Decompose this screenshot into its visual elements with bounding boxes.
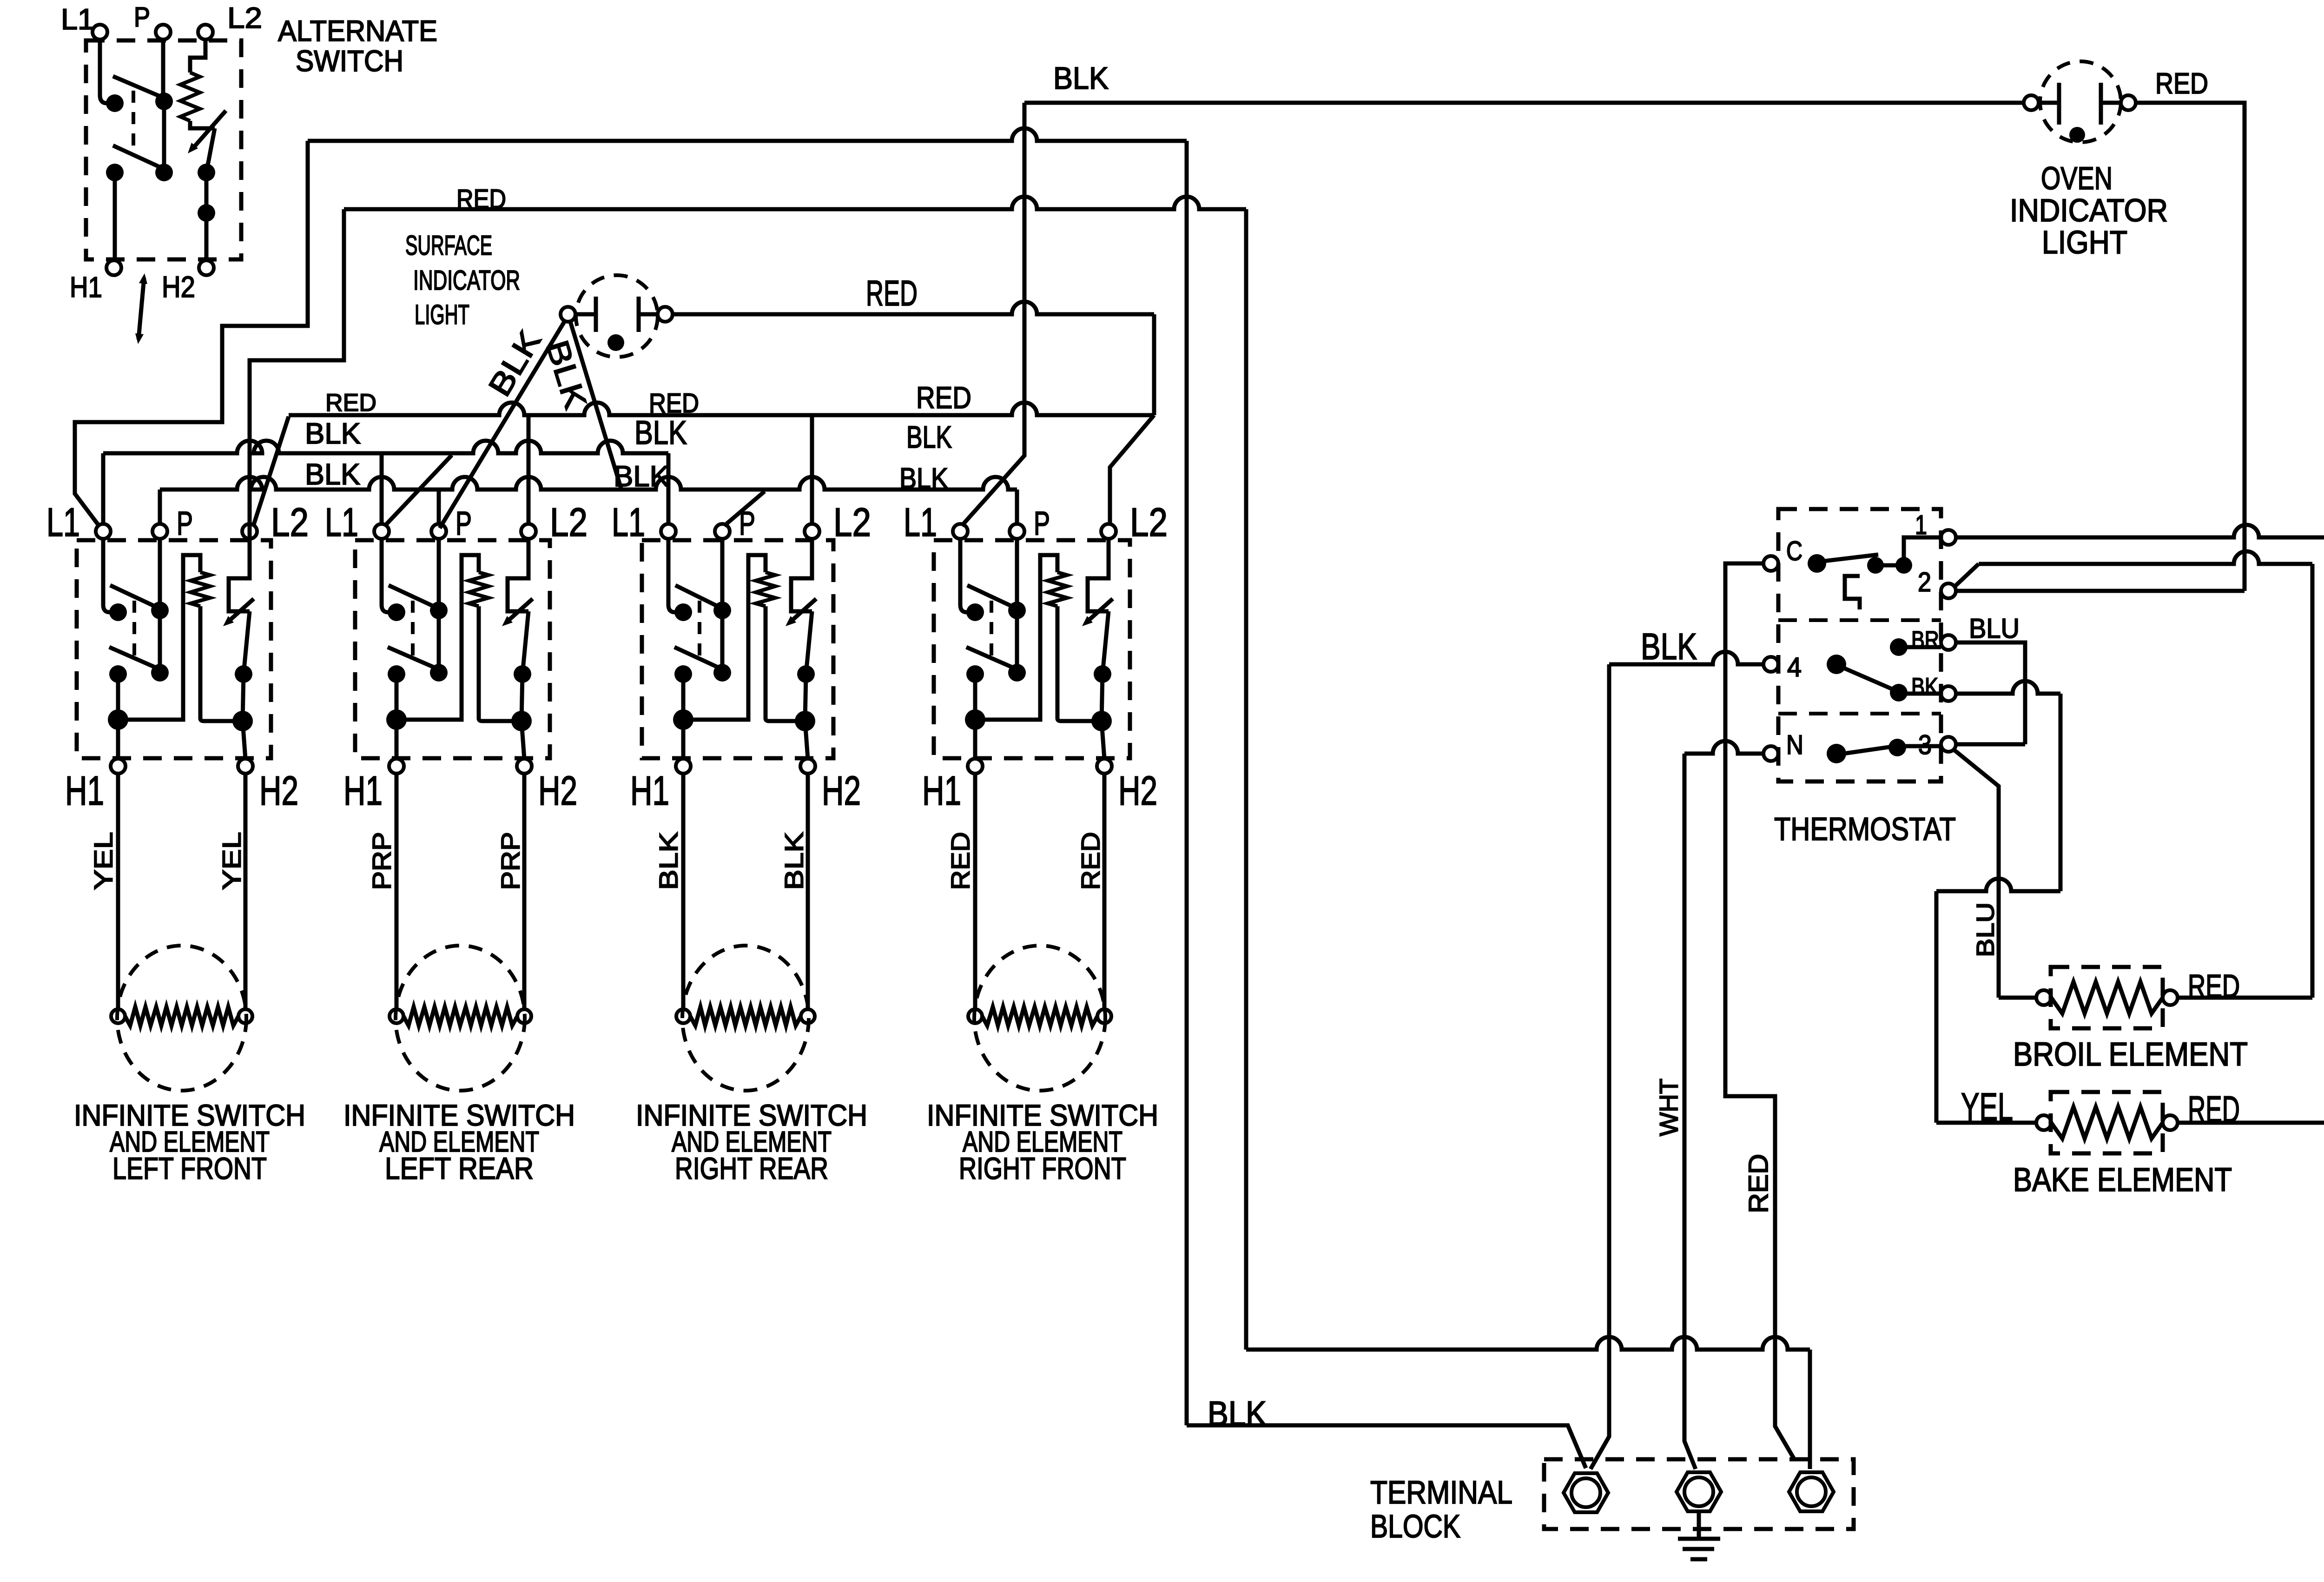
- bake element terminal left: [2036, 1115, 2051, 1130]
- switch left front blade 2: [109, 647, 162, 670]
- ground symbol: [1678, 1512, 1720, 1559]
- switch left rear terminal H1: [389, 759, 404, 774]
- alternate switch mechanical link: [132, 91, 135, 156]
- surface indicator light terminal right: [658, 307, 673, 322]
- wire BLK drop switch4: [962, 103, 1024, 526]
- switch left rear bimetal resistor: [469, 572, 489, 606]
- alternate switch terminal H1: [106, 260, 121, 275]
- element right rear terminal left: [676, 1009, 690, 1023]
- wire L1 left rear riser: [380, 453, 384, 524]
- switch right rear wire to H1: [681, 674, 686, 759]
- wire RED light corner down: [1152, 314, 1156, 415]
- label YEL right left front: [217, 832, 246, 890]
- switch left rear contact dot a1: [388, 603, 405, 621]
- wire thermostat 2 to broil right: [1954, 564, 1979, 587]
- switch right rear junction dot H1: [673, 709, 693, 730]
- svg-text:H1: H1: [630, 768, 669, 814]
- wire thermostat N WHT to terminal block: [1684, 741, 1763, 754]
- switch right front terminal P: [1010, 524, 1024, 539]
- label BLK diagonal 1: [482, 324, 548, 403]
- wire BLK L1 chain: [103, 441, 668, 453]
- svg-text:H1: H1: [70, 271, 102, 304]
- svg-text:L1: L1: [61, 3, 94, 36]
- thermostat wire BR dot: [1899, 645, 1941, 649]
- switch left rear wire b-dot to junction: [522, 674, 522, 721]
- switch left front L1 lead: [103, 539, 118, 612]
- switch left rear mechanical link: [411, 601, 415, 661]
- alternate switch blade 1: [113, 76, 170, 100]
- label RED right right front: [1076, 832, 1105, 890]
- svg-text:RED: RED: [2188, 968, 2240, 1004]
- svg-text:RIGHT FRONT: RIGHT FRONT: [959, 1151, 1126, 1185]
- svg-text:L2: L2: [1130, 500, 1168, 545]
- switch right front contact dot b1: [966, 665, 984, 683]
- oven indicator light dot: [2069, 127, 2085, 143]
- thermostat terminal C: [1763, 556, 1778, 571]
- element left front terminal right: [238, 1009, 252, 1023]
- switch right rear terminal L1: [661, 524, 676, 539]
- thermostat terminal N: [1763, 746, 1778, 761]
- label PRP right left rear: [495, 832, 525, 890]
- switch left front bimetal lower lead: [200, 606, 243, 721]
- thermostat 4 contact dot: [1827, 655, 1846, 674]
- switch left rear bimetal loop: [396, 555, 479, 720]
- svg-text:BLK: BLK: [1641, 626, 1697, 667]
- svg-text:BR: BR: [1911, 627, 1939, 654]
- switch left rear terminal P: [431, 524, 446, 539]
- bake element left lead: [1936, 1121, 2036, 1125]
- element left front resistor: [125, 1007, 238, 1026]
- svg-text:BLK: BLK: [305, 417, 361, 450]
- thermostat terminal 1: [1941, 530, 1956, 545]
- svg-text:YEL: YEL: [1961, 1085, 2013, 1129]
- wire element right rear H2 lead: [806, 774, 810, 1009]
- wire RED drop L2 right rear: [810, 415, 814, 524]
- wire RED ramp from L2 left front: [253, 417, 289, 526]
- switch left front contact dot a2: [151, 602, 169, 619]
- broil element resistor: [2051, 982, 2163, 1013]
- alternate switch L1 lead: [100, 40, 115, 103]
- wire thermostat 1 to bake right: [1956, 525, 2324, 537]
- surface indicator light dot: [607, 334, 624, 351]
- svg-text:H2: H2: [162, 270, 195, 304]
- svg-text:H1: H1: [343, 768, 383, 814]
- switch left rear wire P dots: [437, 610, 441, 673]
- svg-text:L1: L1: [612, 500, 645, 545]
- svg-text:H2: H2: [822, 768, 861, 814]
- svg-text:RED: RED: [1743, 1154, 1774, 1213]
- svg-text:PRP: PRP: [495, 832, 525, 890]
- switch right front L1 lead: [960, 539, 975, 612]
- switch left front wire junction to H2: [243, 721, 245, 759]
- oven indicator light envelope: [2040, 61, 2121, 142]
- wire element right front H2 lead: [1103, 774, 1107, 1009]
- svg-text:BLK: BLK: [906, 420, 952, 455]
- switch left front terminal L2: [242, 524, 257, 539]
- thermostat BK dot: [1890, 684, 1908, 702]
- switch right front L2 lead: [1088, 539, 1109, 611]
- alternate switch resistor: [180, 73, 200, 121]
- switch left front terminal H2: [238, 759, 253, 774]
- switch right front cam arrow: [1087, 599, 1113, 622]
- svg-text:BLK: BLK: [614, 460, 669, 493]
- label BLU broil: [1972, 902, 1999, 957]
- alternate switch blade 2: [113, 146, 170, 172]
- svg-text:ALTERNATE: ALTERNATE: [278, 15, 437, 47]
- infinite switch right rear box: [642, 540, 833, 758]
- element left rear terminal left: [390, 1009, 403, 1023]
- switch right front contact dot c: [1094, 665, 1111, 683]
- switch right rear wire b-dot to junction: [805, 674, 806, 721]
- element right rear envelope: [682, 946, 809, 1091]
- svg-text:YEL: YEL: [88, 832, 118, 890]
- switch left rear terminal L1: [374, 524, 389, 539]
- switch right front bimetal loop: [975, 555, 1057, 720]
- switch right rear junction dot H2: [795, 711, 815, 731]
- switch right front terminal H2: [1097, 759, 1112, 774]
- switch right front contact dot b2: [1008, 664, 1026, 682]
- svg-text:THERMOSTAT: THERMOSTAT: [1774, 811, 1956, 847]
- switch right front contact dot a1: [966, 603, 984, 621]
- svg-text:2: 2: [1918, 567, 1931, 597]
- wire RED staircase from L2 left front: [250, 209, 344, 539]
- infinite switch right front box: [934, 540, 1130, 758]
- wire thermostat 3 BLU to broil left: [1954, 750, 1999, 998]
- switch left front wire P dots: [158, 610, 162, 673]
- svg-text:H2: H2: [259, 768, 298, 814]
- alternate switch moving blade: [206, 128, 215, 172]
- svg-text:LEFT FRONT: LEFT FRONT: [112, 1151, 267, 1185]
- label BLK left right rear: [654, 832, 683, 890]
- svg-text:BLK: BLK: [634, 415, 687, 451]
- thermostat wire to terminal 1: [1904, 537, 1941, 565]
- alternate switch wire right column: [205, 172, 209, 260]
- switch right rear bimetal lower lead: [766, 606, 805, 721]
- element right rear resistor: [690, 1007, 801, 1026]
- surface indicator light terminal left: [561, 307, 575, 322]
- wire RED staircase bottom run: [1246, 1337, 1810, 1350]
- switch left rear L1 lead: [382, 539, 396, 612]
- alternate switch wire P dots: [162, 101, 166, 172]
- svg-text:BK: BK: [1911, 673, 1938, 701]
- svg-text:RIGHT REAR: RIGHT REAR: [675, 1151, 828, 1185]
- label YEL left left front: [88, 832, 118, 890]
- wire RED to terminal block: [1808, 1350, 1812, 1469]
- switch left front wire to H1: [116, 674, 120, 759]
- svg-text:RED: RED: [866, 273, 918, 313]
- wire element left rear H1 lead: [395, 774, 399, 1009]
- alternate switch contact dot c1: [198, 164, 215, 181]
- switch left rear terminal H2: [517, 759, 532, 774]
- switch left rear blade 1: [389, 585, 442, 610]
- thermostat BR dot: [1890, 638, 1908, 656]
- thermostat wire 3 dot: [1897, 744, 1941, 748]
- alternate switch contact dot b2: [155, 164, 173, 181]
- infinite switch left rear box: [355, 540, 550, 758]
- alternate switch wire to H1: [113, 172, 117, 260]
- element right front terminal right: [1097, 1009, 1111, 1023]
- thermostat C blade: [1820, 555, 1878, 562]
- svg-text:RED: RED: [1076, 832, 1105, 890]
- wire top BLK bus: [1024, 101, 2024, 105]
- thermostat terminal 4: [1763, 657, 1778, 672]
- switch left rear bimetal lower lead: [479, 606, 522, 721]
- alternate switch terminal H2: [199, 260, 214, 275]
- surface indicator light electrodes: [575, 297, 658, 332]
- oven indicator light terminal left: [2024, 95, 2039, 110]
- element right front terminal left: [968, 1009, 982, 1023]
- svg-text:L1: L1: [46, 500, 80, 545]
- svg-text:C: C: [1786, 536, 1802, 566]
- svg-text:BROIL ELEMENT: BROIL ELEMENT: [2013, 1036, 2248, 1073]
- label RED left right front: [945, 832, 975, 890]
- wire P right front drop: [1015, 490, 1019, 524]
- switch left front junction dot H2: [232, 711, 253, 731]
- svg-text:P: P: [177, 505, 193, 542]
- svg-text:RED: RED: [456, 184, 506, 214]
- switch right rear terminal H1: [676, 759, 691, 774]
- svg-text:BLK: BLK: [899, 463, 948, 495]
- infinite switch left front box: [77, 540, 271, 758]
- bake element box: [2051, 1092, 2163, 1153]
- terminal block lug 1: [1564, 1473, 1608, 1512]
- thermostat terminal BK: [1941, 686, 1956, 701]
- broil element terminal right: [2163, 990, 2178, 1005]
- svg-text:TERMINAL: TERMINAL: [1370, 1474, 1512, 1510]
- switch left front contact dot a1: [109, 603, 127, 621]
- svg-text:BLU: BLU: [1969, 613, 2020, 644]
- switch left rear contact dot a2: [430, 602, 448, 619]
- alternate switch terminal L1: [92, 25, 107, 40]
- label RED terminal block: [1743, 1154, 1774, 1213]
- switch left rear blade 2: [388, 647, 441, 670]
- svg-text:YEL: YEL: [217, 832, 246, 890]
- thermostat divider 1: [1778, 618, 1941, 622]
- switch right front moving blade: [1103, 611, 1109, 674]
- oven indicator light terminal right: [2121, 95, 2136, 110]
- switch right front wire b-dot to junction: [1102, 674, 1103, 721]
- wire oven light to corner: [2136, 103, 2245, 591]
- svg-text:BLOCK: BLOCK: [1370, 1508, 1460, 1544]
- switch left front terminal H1: [111, 759, 125, 774]
- switch left front contact dot b1: [109, 665, 127, 683]
- switch left rear contact dot c: [514, 665, 531, 683]
- svg-text:SWITCH: SWITCH: [296, 44, 403, 78]
- svg-text:BLK: BLK: [1053, 61, 1109, 96]
- thermostat C contact dot: [1808, 554, 1826, 573]
- switch left front contact dot c: [235, 665, 252, 683]
- switch right rear L2 lead: [791, 539, 812, 611]
- switch right front junction dot H2: [1091, 711, 1112, 731]
- svg-text:INDICATOR: INDICATOR: [2010, 192, 2168, 228]
- svg-text:BLU: BLU: [1972, 902, 1999, 957]
- switch right front contact dot a2: [1008, 602, 1026, 619]
- oven indicator light electrodes: [2039, 83, 2121, 125]
- switch right rear blade 1: [675, 585, 726, 610]
- broil element right lead: [2178, 996, 2312, 1000]
- svg-text:BLK: BLK: [654, 832, 683, 890]
- switch right rear P lead: [720, 539, 725, 610]
- wire BR jumper: [1956, 642, 2025, 744]
- element right front resistor: [982, 1007, 1097, 1026]
- switch right front mechanical link: [990, 601, 993, 661]
- switch left rear P lead: [437, 539, 441, 610]
- svg-text:L2: L2: [833, 500, 871, 545]
- switch left front junction dot H1: [108, 709, 128, 730]
- alternate switch box: [86, 40, 241, 259]
- wire thermostat 2 BLU to oven light: [1956, 589, 2245, 593]
- wire P left front riser: [158, 490, 162, 524]
- bake element resistor: [2051, 1107, 2163, 1139]
- wire BLK to terminal block: [1187, 1425, 1586, 1468]
- svg-text:H1: H1: [65, 768, 104, 814]
- switch right front P lead: [1015, 539, 1019, 610]
- broil element box: [2051, 967, 2163, 1028]
- thermostat divider 2: [1778, 712, 1941, 715]
- terminal block lug 2: [1677, 1472, 1721, 1511]
- wire RED drop L2 left rear: [527, 415, 531, 524]
- switch left front mechanical link: [132, 601, 136, 661]
- svg-text:4: 4: [1787, 652, 1802, 682]
- svg-text:P: P: [739, 505, 755, 542]
- thermostat terminal 2: [1941, 583, 1956, 598]
- bake element right lead: [2178, 1121, 2324, 1125]
- alternate switch resistor lower lead: [190, 121, 215, 128]
- switch right rear contact dot c: [797, 665, 815, 683]
- switch right rear L1 lead: [668, 539, 683, 612]
- switch right rear bimetal loop: [683, 555, 766, 720]
- switch right rear contact dot b1: [674, 665, 692, 683]
- switch right front terminal H1: [968, 759, 983, 774]
- switch right front bimetal lower lead: [1057, 606, 1102, 721]
- svg-text:L1: L1: [325, 500, 358, 545]
- switch right rear wire P dots: [720, 610, 725, 673]
- svg-text:WHT: WHT: [1654, 1079, 1683, 1136]
- svg-text:P: P: [1034, 505, 1050, 542]
- wire element right rear H1 lead: [681, 774, 686, 1009]
- switch right rear bimetal resistor: [756, 572, 775, 606]
- wire thermostat 4 BLK to terminal block: [1609, 652, 1763, 664]
- switch left front terminal P: [152, 524, 167, 539]
- svg-text:H1: H1: [922, 768, 961, 814]
- switch left rear contact dot b2: [430, 664, 448, 682]
- alternate switch terminal P: [156, 25, 171, 40]
- wire element right front H1 lead: [973, 774, 977, 1009]
- switch right rear contact dot a2: [713, 602, 731, 619]
- svg-text:RED: RED: [945, 832, 975, 890]
- alternate switch pointer arrow: [139, 278, 144, 339]
- wire BLK staircase from L1 left front: [75, 141, 308, 526]
- svg-text:SURFACE: SURFACE: [405, 230, 492, 261]
- terminal block lug 3: [1789, 1472, 1834, 1511]
- svg-text:H2: H2: [538, 768, 577, 814]
- switch left front bimetal loop: [118, 555, 200, 720]
- svg-text:H2: H2: [1118, 768, 1157, 814]
- wire RED bus to L2 right front: [1110, 415, 1154, 524]
- svg-text:L2: L2: [550, 500, 588, 545]
- switch left rear wire to H1: [395, 674, 399, 759]
- switch left rear terminal L2: [521, 524, 536, 539]
- wire BLK staircase down run: [1185, 141, 1189, 1425]
- element right rear terminal right: [801, 1009, 815, 1023]
- switch left rear junction dot H1: [386, 709, 407, 730]
- label BLK right right rear: [779, 832, 808, 890]
- svg-text:OVEN: OVEN: [2041, 160, 2113, 196]
- switch left front wire b-dot to junction: [243, 674, 244, 721]
- switch right front junction dot H1: [965, 709, 985, 730]
- wire BLK diagonal light to P left rear: [440, 320, 565, 528]
- alternate switch contact dot a1: [106, 94, 124, 112]
- switch right rear cam arrow: [790, 599, 816, 622]
- svg-text:L2: L2: [271, 500, 309, 545]
- switch left rear L2 lead: [508, 539, 528, 611]
- svg-text:BLK: BLK: [779, 832, 808, 890]
- switch right front terminal L1: [953, 524, 968, 539]
- element left front envelope: [117, 946, 246, 1091]
- svg-text:RED: RED: [916, 380, 971, 415]
- switch right front wire junction to H2: [1102, 721, 1104, 759]
- wire P right rear ramp: [724, 491, 765, 526]
- element left rear resistor: [403, 1007, 517, 1026]
- label BLK diagonal 2: [539, 336, 594, 413]
- thermostat terminal BR: [1941, 635, 1956, 650]
- switch left front blade 1: [110, 585, 164, 610]
- wire element left front H1 lead: [116, 774, 120, 1009]
- element left rear terminal right: [517, 1009, 531, 1023]
- switch left front cam arrow: [228, 599, 254, 622]
- svg-text:LEFT REAR: LEFT REAR: [385, 1151, 534, 1185]
- wire BLK staircase top run: [308, 128, 1187, 141]
- switch right rear moving blade: [806, 611, 812, 674]
- switch right front wire P dots: [1015, 610, 1019, 673]
- wire L1 left front riser: [101, 453, 106, 524]
- svg-text:LIGHT: LIGHT: [415, 299, 469, 330]
- svg-text:RED: RED: [649, 388, 699, 418]
- switch left rear cam arrow: [507, 599, 533, 622]
- switch left front terminal L1: [96, 524, 111, 539]
- svg-text:P: P: [456, 505, 472, 542]
- switch left rear wire junction to H2: [522, 721, 524, 759]
- switch right front wire to H1: [973, 674, 977, 759]
- broil element left lead: [1999, 996, 2036, 1000]
- thermostat N blade: [1841, 746, 1895, 754]
- element right front envelope: [974, 946, 1105, 1091]
- terminal block box: [1544, 1459, 1854, 1529]
- alternate switch contact dot a2: [155, 93, 173, 110]
- svg-text:RED: RED: [2155, 67, 2208, 100]
- svg-text:PRP: PRP: [367, 832, 396, 890]
- switch left front P lead: [158, 539, 162, 610]
- wire BLK P chain: [160, 477, 1017, 490]
- thermostat N contact dot: [1827, 744, 1846, 763]
- switch left rear moving blade: [522, 611, 528, 674]
- alternate switch P lead: [161, 40, 165, 101]
- wire L1 right rear riser: [667, 453, 671, 524]
- thermostat actuator symbol: [1845, 576, 1860, 609]
- switch left front L2 lead: [229, 539, 250, 611]
- switch right rear blade 2: [674, 647, 725, 670]
- switch left front bimetal resistor: [191, 572, 210, 606]
- svg-text:RED: RED: [2188, 1089, 2240, 1131]
- svg-text:L2: L2: [227, 2, 262, 34]
- svg-text:RED: RED: [325, 389, 376, 417]
- switch right rear wire junction to H2: [805, 721, 808, 759]
- thermostat box: [1778, 509, 1941, 781]
- thermostat wire BK dot: [1899, 692, 1941, 696]
- wire thermostat C RED to terminal block: [1725, 563, 1795, 1460]
- switch left front contact dot b2: [151, 664, 169, 682]
- wire BLK diagonal light to P chain: [570, 322, 621, 490]
